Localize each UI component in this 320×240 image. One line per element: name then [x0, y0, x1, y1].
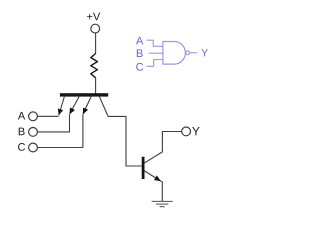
transistor Q2 base bar — [142, 157, 145, 179]
gate input label B (blue) — [137, 49, 143, 57]
output label Y — [192, 127, 199, 135]
gate wire A — [147, 40, 163, 46]
gate output label Y (blue) — [201, 49, 208, 56]
input terminal A — [29, 112, 38, 121]
input terminal C — [29, 143, 38, 152]
gate input label A (blue) — [136, 37, 143, 45]
Q1 emitter 3 (input C) with arrowhead — [83, 96, 92, 115]
wire resistor R1 to Q1 base — [95, 78, 97, 94]
wire terminal A to Q1 emitter 1 — [37, 115, 58, 117]
Q1 emitter 2 (input B) with arrowhead — [70, 96, 80, 115]
input label B — [19, 128, 25, 136]
wire +V terminal to resistor R1 — [95, 33, 97, 54]
wire terminal B to Q1 emitter 2 — [37, 115, 69, 132]
NAND gate body U1 — [163, 42, 185, 65]
NAND gate inversion bubble — [186, 51, 190, 55]
gate output wire — [190, 52, 197, 54]
wire Q2 collector to output Y — [162, 132, 181, 153]
resistor R1 — [91, 54, 98, 78]
Q1 collector diagonal — [99, 96, 108, 116]
transistor Q1 multi-emitter base bar — [60, 93, 108, 96]
ground — [152, 201, 173, 206]
input terminal B — [29, 127, 38, 136]
Q2 emitter with arrowhead — [144, 171, 162, 182]
output terminal Y — [182, 127, 191, 136]
gate input label C (blue) — [136, 63, 143, 71]
Q2 collector — [144, 152, 162, 163]
input label A — [18, 112, 25, 120]
input label C — [18, 143, 25, 151]
wire Q2 emitter to ground — [161, 182, 163, 202]
gate wire C — [146, 60, 163, 67]
wire terminal C to Q1 emitter 3 — [37, 115, 83, 148]
+V terminal — [91, 24, 100, 33]
gate wire B — [149, 52, 163, 54]
wire Q1 collector to Q2 base — [108, 116, 142, 166]
node +V label — [87, 13, 100, 21]
Q1 emitter 1 (input A) with arrowhead — [58, 96, 65, 116]
